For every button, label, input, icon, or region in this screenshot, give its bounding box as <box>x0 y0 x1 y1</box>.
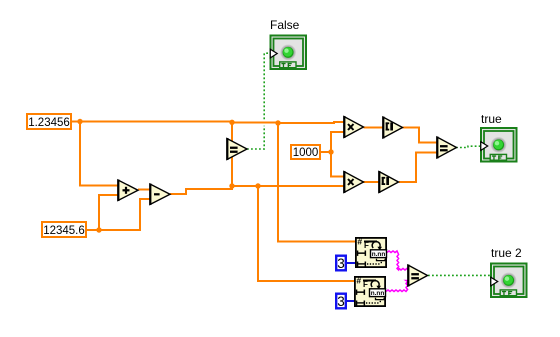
numeric constant 1000 <box>291 145 320 159</box>
integer constant 3 (first) <box>336 256 346 271</box>
junction dot 12345.6 wire at x99 <box>96 227 101 232</box>
boolean indicator False <box>270 36 306 70</box>
wire 1000 branch up to multiply1 <box>331 132 344 152</box>
boolean wire equal2 to true indicator <box>456 146 481 147</box>
blue wire 3 const 2 to node2 <box>347 300 354 302</box>
wire vertical x99 to add bottom input <box>99 195 118 230</box>
wire vertical x278 down to string node 1 <box>278 122 355 242</box>
wire from 12345.6 horizontal y230 <box>87 229 141 231</box>
wire round2 to equal2 bottom <box>399 153 437 183</box>
blue wire 3 const 1 to node1 <box>347 262 355 264</box>
multiply1 node <box>343 116 363 138</box>
wire subtract output jog <box>170 186 232 194</box>
boolean indicator true <box>481 128 517 162</box>
junction dot top wire at x80 <box>77 119 82 124</box>
wire vertical x80 down to add top input <box>80 122 118 186</box>
junction dot top wire at x278 <box>275 120 280 125</box>
junction dot bottom wire at x258 <box>255 183 260 188</box>
junction dot top wire at x232 <box>229 120 234 125</box>
svg-text:n.nn: n.nn <box>371 290 385 297</box>
wire 1000 branch down to multiply2 <box>331 152 344 177</box>
wire bottom horizontal y186 <box>232 185 344 187</box>
wire add output to subtract input <box>138 189 150 191</box>
svg-text:n.nn: n.nn <box>372 251 386 258</box>
boolean wire equal3 to true2 indicator <box>428 274 491 276</box>
subtract node <box>149 184 170 206</box>
wire vertical x258 down to string node 2 <box>258 186 354 281</box>
junction dot 1000 wire at x331 <box>328 149 333 154</box>
wire vertical x140 to subtract bottom input <box>140 199 150 230</box>
number-to-fractional-string node 2 <box>355 276 386 307</box>
equal1 node <box>226 138 247 160</box>
equal3 node <box>407 265 427 287</box>
numeric constant 1.23456 <box>27 114 71 129</box>
junction dot bottom wire at x232 <box>229 183 234 188</box>
wire top horizontal from 1.23456 <box>72 121 232 123</box>
svg-text:#: # <box>357 237 362 247</box>
integer constant 3 (second) <box>336 294 346 309</box>
svg-text:1.23456: 1.23456 <box>28 117 70 129</box>
add node <box>117 180 138 202</box>
wire top horizontal segment 3 into multiply1 <box>278 122 344 123</box>
svg-text:#: # <box>356 276 361 286</box>
svg-text:3: 3 <box>337 294 345 309</box>
svg-text:F: F <box>364 241 369 250</box>
wire top horizontal segment 2 <box>232 122 278 124</box>
svg-text:3: 3 <box>337 256 345 271</box>
number-to-fractional-string node 1 <box>356 237 387 268</box>
svg-text:true: true <box>481 112 502 126</box>
multiply2 node <box>343 171 363 193</box>
string wire node2 to equal3 <box>386 281 408 292</box>
svg-text:true 2: true 2 <box>491 246 522 260</box>
round2 node <box>378 171 398 193</box>
round1 node <box>382 117 402 139</box>
wire multiply2 to round2 <box>364 181 380 183</box>
boolean wire equal1 to False indicator <box>247 126 264 149</box>
boolean indicator true2 <box>491 264 527 298</box>
svg-text:12345.6: 12345.6 <box>43 225 85 237</box>
equal2 node <box>436 137 456 159</box>
wire multiply1 to round1 <box>364 127 384 129</box>
string wire node1 to equal3 <box>387 251 408 270</box>
wire round1 to equal2 top <box>403 128 438 143</box>
svg-text:F: F <box>363 280 368 289</box>
svg-text:1000: 1000 <box>293 147 319 159</box>
svg-text:False: False <box>270 18 300 32</box>
numeric constant 12345.6 <box>42 222 86 237</box>
wire vertical x232 through equal node <box>231 122 233 186</box>
wire from 1000 constant <box>321 151 331 153</box>
